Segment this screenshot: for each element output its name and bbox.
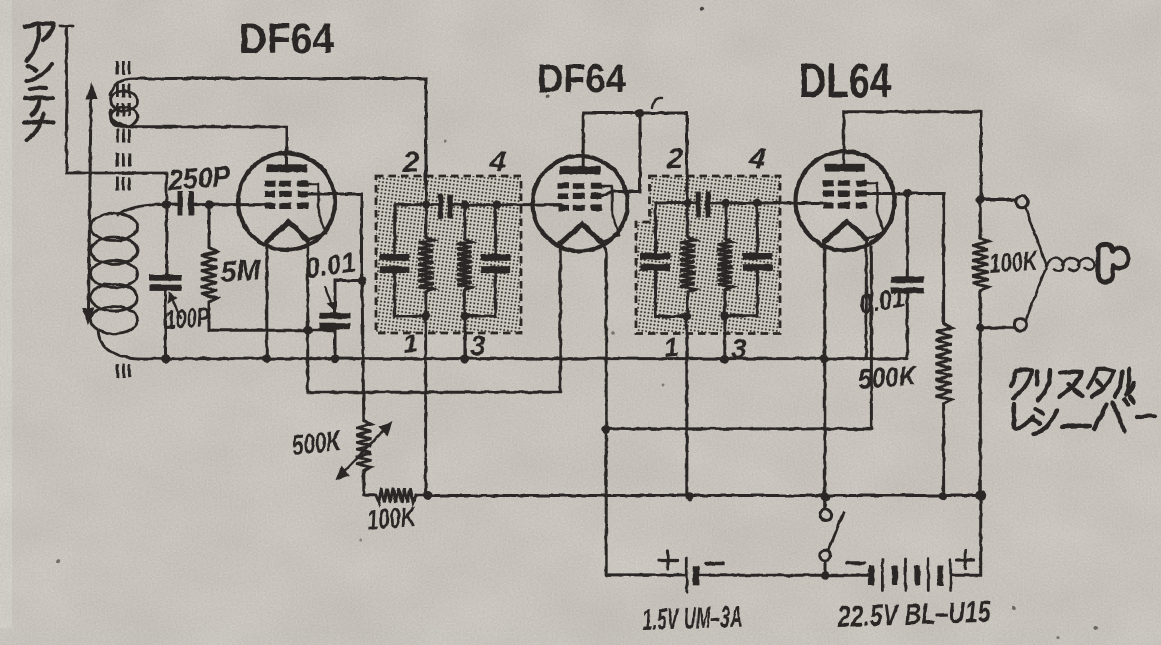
node pot/unit1 pin1 on B bus	[423, 491, 432, 500]
wire node to 250P	[167, 203, 177, 206]
resistor 100K bottom	[376, 488, 416, 502]
coupling unit block 1 (dashed, stippled)	[376, 176, 521, 333]
node V1 fil-left on bus	[262, 354, 271, 363]
receiver bottom terminal	[980, 326, 1014, 329]
node switch on battery rail	[821, 571, 830, 580]
capacitor 0.01 first	[335, 281, 362, 313]
node unit2 pin2 junction	[683, 199, 692, 208]
resistor 500K right	[936, 324, 952, 404]
battery B1 1.5V UM-3A	[685, 558, 688, 592]
node unit2 bottom-right junction	[720, 311, 729, 320]
label crystal receiver (katakana, line 2)	[1014, 397, 1155, 434]
capacitor 0.01 second	[906, 193, 909, 277]
scan artifact tick	[652, 98, 662, 108]
unit2 pin1 wire (down to B bus)	[685, 317, 688, 497]
unit1 left capacitor	[395, 205, 426, 254]
unit2 right capacitor	[726, 202, 757, 205]
node receiver bottom	[976, 323, 985, 332]
unit2 pin3 wire (down to bus)	[723, 316, 726, 360]
wire y330 filament return	[209, 329, 335, 332]
coil L1 secondary (tuning winding)	[118, 205, 167, 215]
node 500K on B bus	[938, 492, 947, 501]
unit2 right resistor	[725, 203, 728, 239]
antenna label (katakana a-n-te-na, vertical)	[24, 23, 54, 140]
node unit2 pin4 junction	[753, 199, 762, 208]
node right corner on B bus	[976, 490, 986, 500]
coupling double arrow	[89, 98, 92, 309]
node unit2 bottom-left junction	[682, 312, 691, 321]
V2 g2 lead wire	[602, 113, 640, 196]
wire plate-coil top (to coupling unit 1 pin2)	[136, 79, 426, 204]
V3 plate lead	[844, 112, 981, 200]
node V1 g2 / 0.01 / volume junction	[358, 276, 367, 285]
V2 plate lead	[583, 113, 687, 167]
node unit1 pin3 on bus	[460, 355, 469, 364]
antenna lead wire	[60, 25, 73, 28]
node unit1 pin2 junction	[422, 200, 431, 209]
node unit1 pin4 junction	[493, 200, 502, 209]
wire tickler to V1 plate	[136, 127, 287, 167]
capacitor 250P	[178, 191, 183, 216]
antenna rod core dashes	[116, 61, 119, 75]
node unit2 pin3 on bus	[720, 355, 729, 364]
tube V1 DF64	[238, 153, 335, 250]
node unit1 cap-right junction	[461, 200, 470, 209]
filament series wire y392	[308, 330, 561, 392]
coil L1 primary (tickler winding)	[111, 78, 138, 95]
unit1 right resistor	[463, 205, 466, 239]
battery B2 22.5V BL-U15	[868, 566, 874, 586]
node 100P on bus	[161, 354, 170, 363]
wire y430 screen feed	[606, 427, 871, 430]
receiver top terminal	[980, 198, 1015, 201]
node y430 on A+ line	[602, 425, 611, 434]
node V3 plate/receiver top	[976, 195, 985, 204]
unit1 series capacitor	[438, 194, 443, 219]
label crystal receiver (katakana, line 1)	[1011, 369, 1134, 400]
unit1 pin3 wire (down to bus)	[463, 316, 466, 359]
node 0.01 on bus	[331, 354, 340, 363]
wire unit2 pin4 to V3 grid	[757, 202, 822, 205]
node unit1 bottom-left junction	[421, 312, 430, 321]
node unit1 bottom-right junction	[461, 312, 470, 321]
V1 filament left leg	[265, 242, 268, 360]
node V1 grid input	[205, 200, 214, 209]
V2 filament left leg	[559, 242, 562, 392]
switch	[823, 497, 826, 509]
unit2 left capacitor	[656, 203, 688, 253]
potentiometer 500K	[362, 281, 364, 421]
unit1 pin1 wire (down to B bus)	[424, 316, 427, 496]
receiver twisted pair	[1046, 258, 1064, 271]
wire grid1 to V1	[209, 203, 264, 206]
node V2 plate/g2 junction	[635, 109, 644, 118]
coupling unit block 2 (dashed, stippled, notched)	[636, 176, 780, 334]
wire V2 plate down to unit2 pin2	[686, 113, 689, 203]
V3 g2 lead wire	[866, 194, 943, 324]
earphone	[1098, 244, 1128, 282]
node switch line on B bus	[821, 493, 830, 502]
node V3 fil-left on bus	[819, 354, 828, 363]
tube V3 DL64	[796, 152, 895, 251]
unit1 left resistor	[425, 205, 428, 238]
V3 filament right leg	[864, 240, 868, 358]
node unit2 pin1 on B bus	[685, 492, 694, 501]
bus wire B- (y496)	[428, 494, 981, 497]
node unit2 cap-right junction	[722, 199, 731, 208]
unit1 right capacitor	[465, 203, 497, 206]
V3 filament left leg (to switch)	[823, 241, 827, 510]
V1 filament right leg	[306, 240, 309, 330]
V3 screen branch vertical	[870, 247, 873, 429]
V2 filament right leg (A+ line)	[601, 242, 606, 575]
receiver cords	[1026, 208, 1047, 266]
wire unit1 pin4 to V2 grid	[497, 203, 561, 206]
node V3 g2 / 0.01 junction	[903, 189, 912, 198]
unit2 series capacitor	[696, 192, 701, 218]
unit2 left resistor	[686, 203, 689, 237]
node antenna/coil/cap junction	[162, 200, 171, 209]
scan specks	[700, 7, 704, 11]
node V1 filament-right / 5M junction	[303, 326, 312, 335]
resistor 100K output	[979, 200, 982, 238]
bus wire (filament/ground, y359)	[138, 357, 907, 360]
resistor 5M	[208, 205, 211, 248]
battery rail wire	[606, 573, 686, 576]
V1 g2 lead wire	[308, 194, 361, 281]
capacitor 100P	[165, 205, 168, 275]
tube V2 DF64	[533, 156, 628, 251]
